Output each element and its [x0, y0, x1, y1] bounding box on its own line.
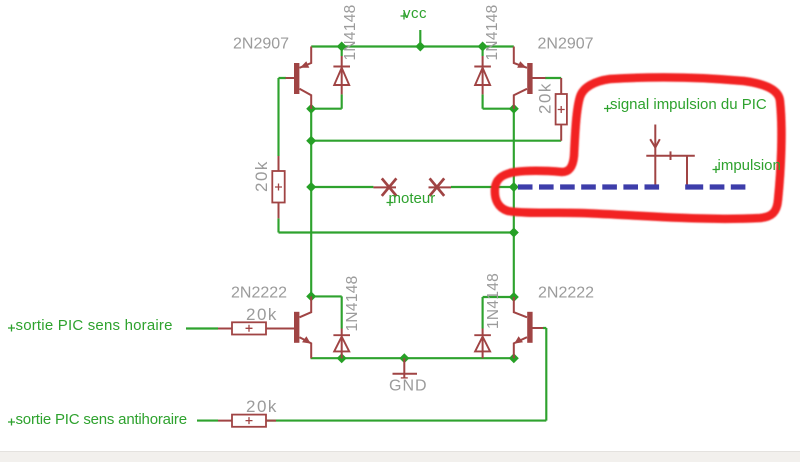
- svg-text:sortie PIC sens horaire: sortie PIC sens horaire: [16, 317, 173, 334]
- svg-text:moteur: moteur: [389, 190, 436, 207]
- svg-text:GND: GND: [389, 378, 428, 395]
- svg-text:1N4148: 1N4148: [344, 275, 361, 331]
- svg-text:20k: 20k: [536, 82, 555, 114]
- svg-text:2N2222: 2N2222: [231, 285, 287, 302]
- svg-text:20k: 20k: [246, 397, 278, 416]
- svg-text:signal impulsion du PIC: signal impulsion du PIC: [610, 96, 767, 113]
- svg-text:1N4148: 1N4148: [484, 4, 501, 60]
- svg-text:20k: 20k: [246, 305, 278, 324]
- svg-text:sortie PIC sens antihoraire: sortie PIC sens antihoraire: [16, 411, 187, 428]
- svg-text:impulsion: impulsion: [718, 157, 781, 174]
- svg-text:20k: 20k: [252, 160, 271, 192]
- svg-text:2N2907: 2N2907: [233, 35, 289, 52]
- svg-text:2N2222: 2N2222: [538, 285, 594, 302]
- svg-text:2N2907: 2N2907: [538, 35, 594, 52]
- svg-text:vcc: vcc: [403, 5, 427, 22]
- svg-text:1N4148: 1N4148: [342, 4, 359, 60]
- svg-text:1N4148: 1N4148: [485, 273, 502, 329]
